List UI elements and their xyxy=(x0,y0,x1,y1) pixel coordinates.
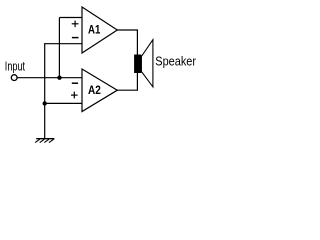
wire: A1 output to speaker top (right then down) xyxy=(117,30,137,55)
node: junction of ground bus and A2 + wire xyxy=(43,101,47,105)
speaker LS1 cone xyxy=(141,40,153,87)
ground xyxy=(35,139,54,143)
wire: input signal wire (horizontal y=77.7) to A2 - input xyxy=(17,77,82,79)
wire: vertical from input node up to A1 + input (x=59.7) xyxy=(58,18,60,78)
svg-text:A2: A2 xyxy=(88,85,101,97)
label: A1 - input polarity mark xyxy=(72,37,79,39)
wire: ground bus vertical (x=44.7) from A1 - input down to ground xyxy=(44,43,46,139)
terminal: Input connector J1 xyxy=(11,75,17,81)
label: A1 + input polarity mark xyxy=(72,21,79,28)
svg-text:Speaker: Speaker xyxy=(155,55,196,69)
svg-text:A1: A1 xyxy=(88,24,101,36)
label: A2 + input polarity mark xyxy=(71,92,78,99)
speaker LS1 magnet body xyxy=(134,55,141,74)
node: junction of input wire and A1 + branch xyxy=(57,76,61,80)
op-amp A1 xyxy=(82,7,117,53)
wire: A2 non-inverting input wire (horizontal y=103.4) xyxy=(45,102,83,104)
svg-text:Input: Input xyxy=(5,60,26,74)
wire: A2 output to speaker bottom (right then up) xyxy=(117,73,137,90)
wire: A1 non-inverting input wire (horizontal y=16.7) xyxy=(59,17,82,19)
wire: A1 inverting input wire (horizontal y=43.7) xyxy=(45,43,83,45)
label: A2 - input polarity mark xyxy=(72,82,78,84)
op-amp A2 xyxy=(82,69,117,112)
